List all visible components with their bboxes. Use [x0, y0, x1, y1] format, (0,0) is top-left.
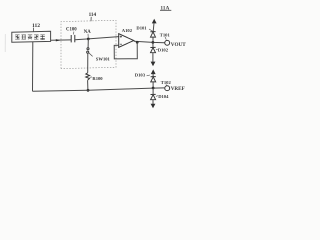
diode D102 — [152, 42, 154, 47]
ground arrow (stack 2) — [151, 104, 156, 109]
signal arrow — [56, 39, 61, 41]
output wire — [134, 41, 165, 43]
supply arrow (stack 2) — [151, 69, 156, 74]
svg-text:SW101: SW101 — [96, 57, 111, 62]
svg-text:D104: D104 — [158, 94, 169, 99]
svg-text:A102: A102 — [122, 28, 133, 33]
figure label 11A — [160, 5, 171, 11]
wire box bottom to rail — [32, 42, 34, 91]
wire switch to resistor — [87, 53, 89, 73]
diode D104 — [151, 93, 156, 95]
svg-text:T102: T102 — [161, 80, 172, 85]
node at op-amp output line — [152, 41, 155, 44]
svg-text:VOUT: VOUT — [171, 42, 186, 48]
resistor R100 — [86, 73, 90, 80]
feedback wire — [114, 42, 137, 59]
svg-text:NA: NA — [84, 30, 91, 35]
switch SW101 — [87, 48, 89, 50]
wire node NA to switch — [87, 39, 89, 48]
svg-text:D101: D101 — [136, 26, 147, 31]
output node — [136, 41, 139, 44]
wire resistor to rail — [87, 80, 89, 90]
svg-text:D102: D102 — [158, 48, 169, 53]
svg-text:C100: C100 — [66, 27, 77, 32]
svg-text:T101: T101 — [160, 32, 171, 37]
bottom rail — [33, 88, 165, 91]
photoelectric conversion box — [12, 31, 51, 42]
supply arrow top (stack 1) — [152, 19, 157, 24]
dashed box 114 — [61, 20, 116, 68]
svg-text:R100: R100 — [92, 76, 103, 81]
ground arrow (stack 1) — [151, 62, 156, 67]
svg-text:VREF: VREF — [171, 86, 185, 92]
wire box output — [51, 39, 71, 41]
scan artifact line — [4, 34, 6, 52]
box text (photoelectric conversion unit glyphs) — [15, 35, 45, 40]
svg-text:D103: D103 — [135, 72, 146, 77]
wire C100 to op-amp — [75, 37, 119, 40]
svg-text:114: 114 — [89, 12, 97, 18]
